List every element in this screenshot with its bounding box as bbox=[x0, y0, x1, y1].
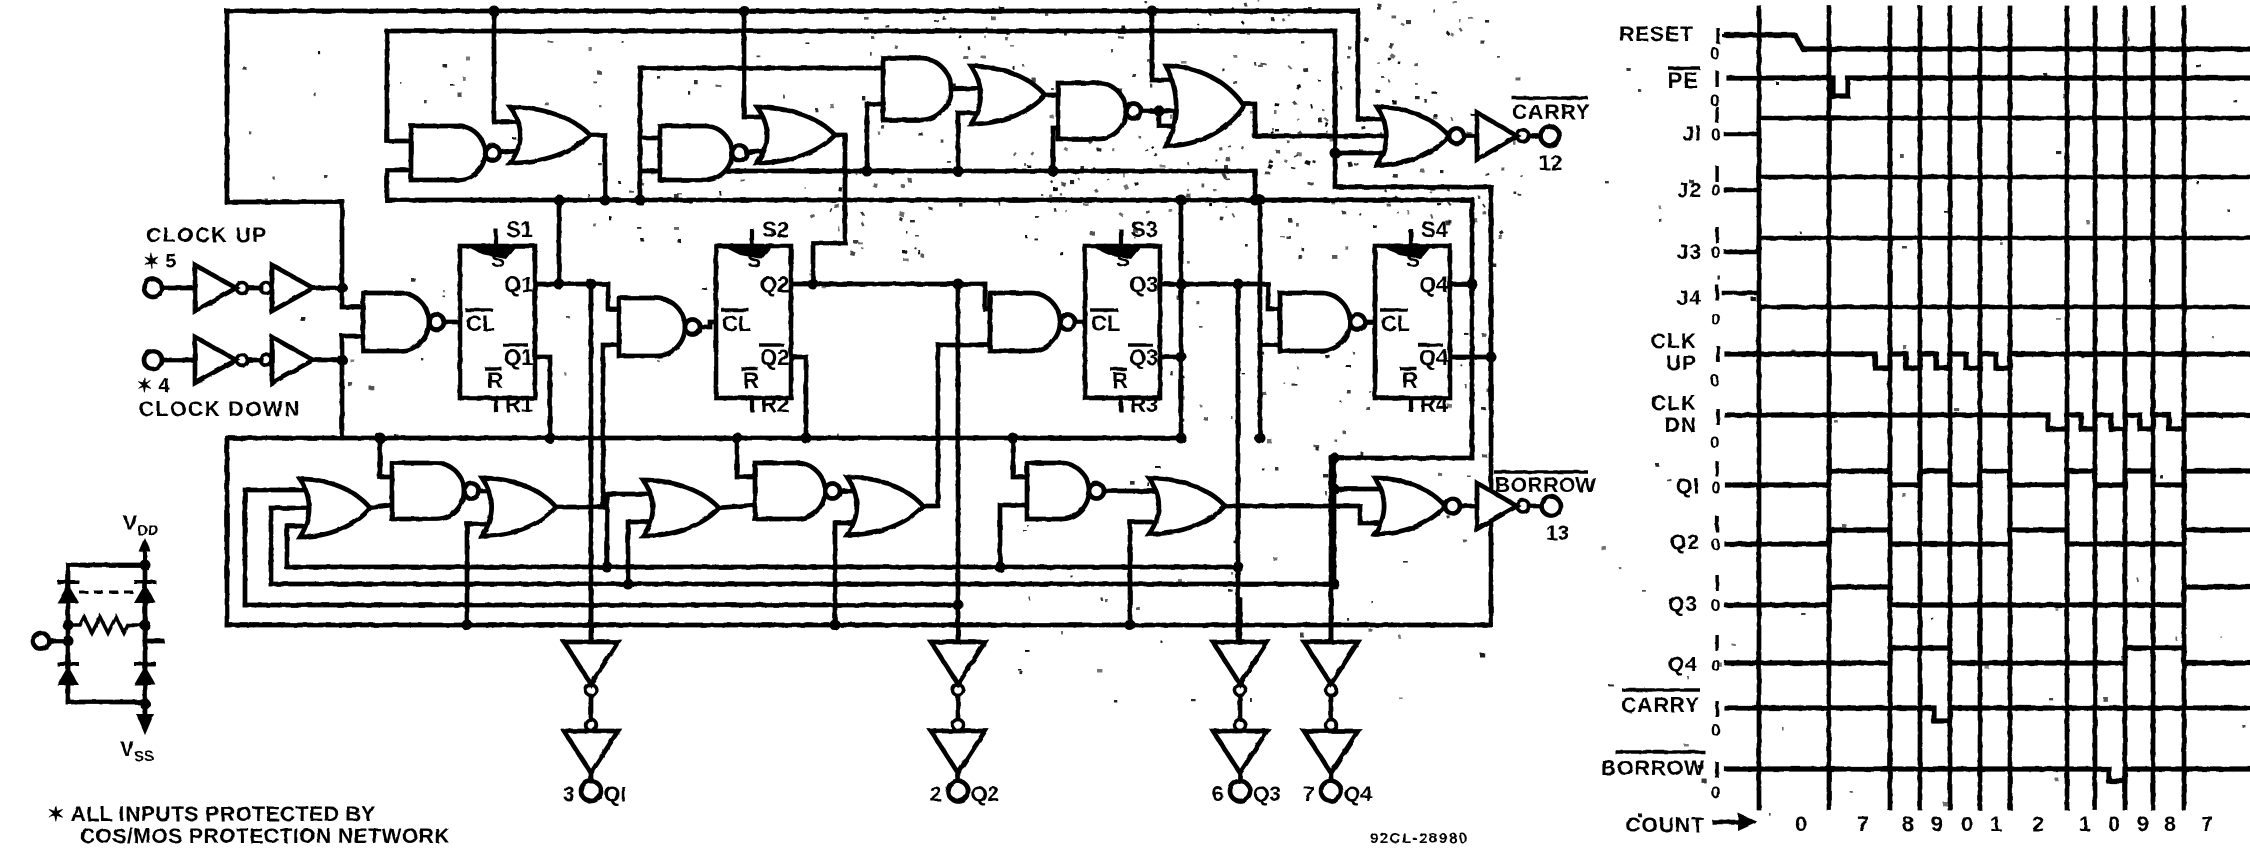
timing grid line 1 bbox=[1827, 8, 1832, 808]
wire trunk TB2 bbox=[271, 582, 1334, 587]
wire Q3 output bbox=[1160, 282, 1268, 287]
svg-text:Q4: Q4 bbox=[1419, 345, 1449, 370]
wire left frame vertical upper bbox=[225, 11, 230, 202]
wire between clock-up buffers bbox=[248, 286, 261, 291]
svg-text:CL: CL bbox=[466, 311, 495, 336]
svg-text:QI: QI bbox=[604, 783, 626, 806]
svg-text:0: 0 bbox=[1961, 812, 1973, 836]
junction Q4 node bbox=[1467, 279, 1478, 290]
node CLK UP waveform bbox=[1727, 354, 2250, 368]
svg-text:R: R bbox=[487, 368, 503, 393]
flip-flop S2/R2 box bbox=[716, 229, 791, 412]
diode D1 to VDD bbox=[57, 582, 79, 603]
wire stair to trunk TA bbox=[287, 526, 318, 567]
BORROW level-1 tick bbox=[1715, 762, 1718, 778]
wire top trunk T1 bbox=[227, 9, 1358, 14]
svg-text:0: 0 bbox=[1711, 535, 1720, 554]
junction Q3 stem on TA bbox=[1233, 562, 1244, 573]
wire frame branch to clock node bbox=[227, 200, 342, 205]
svg-text:S3: S3 bbox=[1131, 217, 1158, 242]
wire stair to trunk TC bbox=[245, 490, 318, 605]
wire G2 to G3 bbox=[493, 150, 530, 153]
junction Q4 feed / NOR riser bbox=[1329, 453, 1340, 464]
wire clock-up to node bbox=[313, 286, 342, 291]
timing grid line 0 bbox=[1757, 8, 1762, 808]
power VDD arrow bbox=[143, 546, 147, 565]
svg-text:0: 0 bbox=[1711, 125, 1720, 144]
bubble A4 input bbox=[261, 355, 272, 366]
junction TF/G8 bbox=[1048, 166, 1059, 177]
wire clock-up to NAND G1 input bbox=[342, 288, 363, 307]
svg-text:BORROW: BORROW bbox=[1601, 757, 1705, 780]
junction G5 output on Q2 line bbox=[808, 279, 819, 290]
diode D2 to VDD bbox=[134, 582, 156, 603]
Q3 level-1 tick bbox=[1715, 575, 1718, 591]
diode D3 to VSS bbox=[57, 664, 79, 685]
svg-text:SS: SS bbox=[134, 748, 154, 765]
wire trunk TB to NAND G2 lower input bbox=[387, 170, 411, 200]
junction TC end on Q2 stem bbox=[953, 600, 964, 611]
svg-text:J4: J4 bbox=[1677, 287, 1702, 310]
Q4 level-1 tick bbox=[1715, 635, 1718, 651]
J2 level-1 tick bbox=[1715, 166, 1718, 182]
wire Q1 to trunk TB bbox=[557, 200, 562, 284]
inverter G24 borrow output bbox=[1477, 483, 1517, 529]
wire G13 output to FF3 CL bbox=[1075, 320, 1085, 325]
OR gate G22 borrow bbox=[1149, 478, 1225, 534]
buffer A3 clock-down first bbox=[195, 337, 236, 383]
svg-text:J3: J3 bbox=[1677, 241, 1702, 264]
svg-text:R: R bbox=[743, 368, 759, 393]
timing grid line 8 bbox=[2093, 8, 2098, 808]
wire Q4 to terminal bbox=[1329, 773, 1334, 781]
bubble A2 input bbox=[261, 283, 272, 294]
overline PE bbox=[1668, 66, 1700, 69]
timing grid line 3 bbox=[1918, 8, 1923, 808]
wire TD to G21 upper input bbox=[1013, 438, 1027, 477]
timing grid line 10 bbox=[2151, 8, 2156, 808]
J4 level-1 tick bbox=[1715, 285, 1718, 301]
svg-text:PE: PE bbox=[1668, 68, 1699, 93]
wire TF to G7 lower input bbox=[958, 113, 988, 171]
wire G16 to G17 bbox=[474, 489, 502, 494]
wire feeder to G6 upper input bbox=[640, 66, 883, 71]
resistor R protection bbox=[68, 617, 145, 633]
svg-text:Q2: Q2 bbox=[971, 783, 999, 806]
CLK DN level-1 tick bbox=[1716, 409, 1719, 425]
svg-text:13: 13 bbox=[1546, 522, 1569, 545]
junction Q1/buffer stem bbox=[586, 279, 597, 290]
wire Q4 riser TB to borrow bbox=[1470, 200, 1475, 458]
wire Q1 buffer stem bbox=[589, 284, 594, 642]
Q1 level-1 tick bbox=[1715, 461, 1718, 477]
wire TF to G8 lower input bbox=[1053, 128, 1058, 171]
wire Q3 to NAND G14 upper input bbox=[1268, 284, 1280, 309]
junction G4 input on TB bbox=[635, 195, 646, 206]
wire G5 output down to Q2 node bbox=[813, 135, 845, 284]
wire riser Q4feed to TB2 bbox=[1332, 458, 1337, 584]
OR gate G20 borrow bbox=[847, 477, 923, 535]
inverter G11 carry output bbox=[1477, 113, 1517, 160]
CLK UP level-1 tick bbox=[1716, 346, 1719, 362]
inverter Q2 output second bbox=[931, 731, 985, 773]
svg-text:CL: CL bbox=[1091, 311, 1120, 336]
svg-text:8: 8 bbox=[1902, 812, 1914, 836]
NAND gate G2 bbox=[411, 126, 500, 180]
svg-text:0: 0 bbox=[1710, 371, 1719, 390]
wire protection output stub bbox=[145, 639, 162, 644]
overline BORROW timing bbox=[1615, 750, 1705, 753]
svg-text:CLK: CLK bbox=[1651, 330, 1697, 353]
svg-text:CARRY: CARRY bbox=[1512, 101, 1591, 124]
wire G18 to G19 bbox=[717, 505, 755, 508]
wire TE to G20 lower input bbox=[835, 523, 866, 625]
svg-text:7: 7 bbox=[1303, 783, 1315, 806]
wire G14 output to FF4 CL bbox=[1365, 320, 1375, 325]
svg-text:Q4: Q4 bbox=[1344, 783, 1372, 806]
svg-text:0: 0 bbox=[1711, 243, 1720, 262]
wire TB drop riser x1260 bbox=[1258, 200, 1263, 438]
junction VDD rail bbox=[140, 560, 151, 571]
OR gate G15 borrow bbox=[300, 479, 370, 537]
wire G12 output to FF2 CL bbox=[701, 322, 716, 327]
flip-flop S1/R1 box bbox=[460, 229, 535, 412]
wire G14 lower input bbox=[1260, 343, 1280, 348]
wire clock-up input bbox=[162, 286, 195, 291]
wire G10 to carry inverter bbox=[1464, 134, 1477, 139]
svg-text:8: 8 bbox=[2164, 812, 2176, 836]
Q2 level-1 tick bbox=[1715, 516, 1718, 532]
node Q1 waveform bbox=[1727, 471, 2250, 485]
wire protection left branch bbox=[66, 565, 71, 702]
node Q2 waveform bbox=[1727, 530, 2250, 544]
svg-text:0: 0 bbox=[1710, 44, 1719, 63]
svg-text:CLOCK DOWN: CLOCK DOWN bbox=[139, 398, 301, 421]
flip-flop S4/R4 box bbox=[1375, 229, 1450, 412]
wire G21 to G22 bbox=[1104, 489, 1168, 494]
inverter QI output first bbox=[564, 642, 618, 684]
svg-text:2: 2 bbox=[930, 783, 942, 806]
svg-text:S1: S1 bbox=[506, 217, 533, 242]
wire TD to G16 upper input bbox=[380, 438, 392, 477]
bubble Q2 second inverter input bbox=[953, 720, 964, 731]
bubble Q2 first inverter bbox=[953, 685, 964, 696]
junction Q1-bar on TD bbox=[545, 433, 556, 444]
output terminal Q3 bbox=[1230, 781, 1250, 801]
wire G22 output to NOR G23 lower input bbox=[1225, 506, 1394, 523]
bubble A3 output bbox=[237, 355, 248, 366]
svg-text:✶ ALL INPUTS PROTECTED BY: ✶ ALL INPUTS PROTECTED BY bbox=[47, 803, 376, 826]
svg-text:Q2: Q2 bbox=[1670, 531, 1700, 554]
wire T2 to NAND G2 upper input bbox=[387, 31, 411, 141]
NOR gate G23 borrow bbox=[1375, 478, 1460, 534]
NAND gate G13 clock FF3 bbox=[990, 293, 1075, 351]
wire G7 to G8 bbox=[1045, 93, 1058, 98]
junction clock-down node bbox=[337, 355, 348, 366]
junction resistor left bbox=[63, 620, 74, 631]
wire Q4 buffer stem bbox=[1329, 458, 1334, 645]
wire stair to trunk TB2 bbox=[271, 508, 318, 584]
NOR gate G10 carry bbox=[1377, 107, 1464, 165]
inverter QI output second bbox=[564, 731, 618, 773]
wire borrow OR output up to G12 lower input bbox=[556, 345, 619, 507]
wire T1 drop to G5 upper input bbox=[744, 9, 778, 117]
output terminal CARRY pin 12 bbox=[1541, 127, 1560, 146]
svg-text:6: 6 bbox=[1212, 783, 1224, 806]
NAND gate G16 borrow bbox=[392, 463, 479, 519]
wire Q2-bar down to trunk TD bbox=[791, 357, 806, 438]
wire Q2 to NAND G13 upper input bbox=[985, 284, 990, 309]
wire to CARRY terminal bbox=[1529, 134, 1540, 139]
buffer A1 clock-up first bbox=[195, 265, 236, 311]
junction resistor right bbox=[140, 620, 151, 631]
wire TA to G21 lower input bbox=[1000, 505, 1027, 567]
junction x1260 on TD bbox=[1255, 433, 1266, 444]
output terminal QI bbox=[581, 781, 601, 801]
wire Q2 buffer stem bbox=[956, 284, 961, 645]
wire trunk TC bbox=[245, 603, 958, 608]
wire G8 output to G9 bbox=[1134, 109, 1186, 114]
wire protection top rail bbox=[68, 563, 145, 568]
svg-text:✶ 4: ✶ 4 bbox=[136, 375, 170, 397]
wire TE to G17 lower input bbox=[467, 524, 500, 625]
wire to BORROW terminal bbox=[1529, 504, 1541, 509]
flip-flop S1 pin labels bbox=[465, 217, 533, 417]
wire Q4 feed to buffer column bbox=[1331, 456, 1472, 461]
inverter Q2 output first bbox=[931, 642, 985, 684]
junction TB bbox=[1176, 195, 1187, 206]
bubble A1 output bbox=[237, 283, 248, 294]
svg-text:V: V bbox=[120, 738, 134, 761]
svg-text:R2: R2 bbox=[761, 392, 789, 417]
node Jl waveform bbox=[1726, 118, 2250, 134]
svg-text:QI: QI bbox=[1676, 475, 1700, 498]
junction TF/G6 bbox=[862, 166, 873, 177]
wire TE to G22 lower input bbox=[1130, 522, 1168, 625]
svg-text:3: 3 bbox=[563, 783, 575, 806]
OR gate G3 bbox=[510, 107, 590, 163]
svg-text:2: 2 bbox=[2032, 812, 2044, 836]
wire T2 end down to G10 lower input bbox=[1335, 31, 1396, 153]
wire G15 to G16 bbox=[368, 505, 392, 508]
junction TD/G21 bbox=[1008, 433, 1019, 444]
wire Q4 between inverters bbox=[1329, 696, 1334, 719]
dashed link between diodes bbox=[79, 591, 134, 594]
svg-text:R4: R4 bbox=[1420, 392, 1449, 417]
overline BORROW bbox=[1494, 470, 1588, 473]
wire clock-down to node bbox=[313, 358, 342, 363]
svg-text:Q3: Q3 bbox=[1253, 783, 1281, 806]
wire G8 output to G9 lower input bbox=[1159, 111, 1186, 126]
wire input to network bbox=[49, 639, 68, 644]
svg-text:CLK: CLK bbox=[1651, 392, 1697, 415]
input terminal CLOCK DOWN pin 4 bbox=[144, 351, 162, 369]
svg-text:Q4: Q4 bbox=[1668, 653, 1698, 676]
timing grid line 5 bbox=[1978, 8, 1983, 808]
svg-text:DN: DN bbox=[1665, 414, 1697, 437]
svg-text:Q3: Q3 bbox=[1129, 345, 1158, 370]
wire trunk TE bbox=[227, 623, 1491, 628]
svg-text:DD: DD bbox=[137, 522, 159, 539]
svg-text:Q4: Q4 bbox=[1419, 272, 1449, 297]
J3 level-1 tick bbox=[1715, 227, 1718, 243]
junction input node bbox=[63, 636, 74, 647]
wire Q4-bar output bbox=[1450, 355, 1491, 360]
wire G23 to borrow inverter bbox=[1460, 504, 1477, 509]
bubble QI first inverter bbox=[586, 685, 597, 696]
junction TB/G14 bbox=[1255, 195, 1266, 206]
junction on TB bbox=[554, 195, 565, 206]
node Q4 waveform bbox=[1727, 648, 2250, 663]
bubble QI second inverter input bbox=[586, 720, 597, 731]
COUNT arrow bbox=[1712, 820, 1744, 825]
wire Q1 output bbox=[535, 282, 608, 287]
junction TA/G18 bbox=[602, 562, 613, 573]
svg-text:CL: CL bbox=[1381, 311, 1410, 336]
NAND gate G19 borrow bbox=[755, 463, 840, 519]
NAND gate G14 clock FF4 bbox=[1280, 293, 1365, 351]
svg-text:V: V bbox=[123, 512, 137, 535]
svg-text:UP: UP bbox=[1666, 352, 1697, 375]
wire Q2 between inverters bbox=[956, 696, 961, 719]
wire QI between inverters bbox=[589, 696, 594, 719]
wire TD to G19 upper input bbox=[737, 438, 755, 477]
svg-text:9: 9 bbox=[1931, 812, 1943, 836]
node RESET waveform bbox=[1727, 35, 2250, 49]
svg-text:12: 12 bbox=[1539, 152, 1562, 175]
wire borrow OR output up to G13 lower input bbox=[923, 345, 990, 506]
svg-text:R1: R1 bbox=[505, 392, 533, 417]
junction G10 lower input node bbox=[1330, 148, 1341, 159]
svg-text:1: 1 bbox=[1990, 812, 2002, 836]
AND gate G6 bbox=[883, 58, 951, 120]
svg-text:Q1: Q1 bbox=[504, 345, 533, 370]
wire protection right branch bbox=[143, 565, 148, 712]
svg-text:✶ 5: ✶ 5 bbox=[143, 251, 176, 273]
svg-text:S: S bbox=[1116, 249, 1130, 272]
junction Q3/buffer stem bbox=[1233, 279, 1244, 290]
timing grid line 11 bbox=[2182, 8, 2187, 808]
timing grid line 7 bbox=[2065, 8, 2070, 808]
wire QI to terminal bbox=[589, 773, 594, 781]
wire T1 drop to G3 upper input bbox=[494, 11, 532, 122]
node J3 waveform bbox=[1726, 238, 2250, 252]
junction G3 output on TB bbox=[600, 195, 611, 206]
bubble Q4 first inverter bbox=[1326, 685, 1337, 696]
node Q3 waveform bbox=[1727, 587, 2250, 605]
inverter Q3 output first bbox=[1213, 642, 1267, 684]
junction T1/G9 bbox=[1147, 6, 1158, 17]
wire trunk TB bbox=[387, 198, 1472, 203]
svg-text:RESET: RESET bbox=[1619, 23, 1694, 46]
wire QI buffer stem lower bbox=[589, 600, 594, 642]
buffer A4 clock-down second bbox=[272, 337, 313, 383]
svg-text:7: 7 bbox=[1857, 812, 1869, 836]
power VSS arrow bbox=[139, 712, 151, 730]
OR gate G5 bbox=[757, 107, 835, 163]
inverter Q4 output first bbox=[1304, 642, 1358, 684]
junction TD/G16 bbox=[375, 433, 386, 444]
bubble G11 output bbox=[1517, 130, 1529, 142]
node PE waveform bbox=[1729, 78, 2250, 96]
junction TF on TB bbox=[1250, 195, 1261, 206]
output terminal Q2 bbox=[948, 781, 968, 801]
Jl level-1 tick bbox=[1715, 107, 1718, 123]
junction riser on TB2 bbox=[1329, 579, 1340, 590]
node J4 waveform bbox=[1724, 293, 2250, 307]
wire Q3-bar to riser bbox=[1160, 355, 1181, 360]
OR gate G9 bbox=[1166, 66, 1244, 146]
wire Q2 output bbox=[791, 282, 985, 287]
junction TE/G17 bbox=[462, 620, 473, 631]
svg-text:0: 0 bbox=[1711, 478, 1720, 497]
junction TD bbox=[1176, 433, 1187, 444]
svg-text:7: 7 bbox=[2201, 812, 2213, 836]
svg-text:COS/MOS PROTECTION NETWORK: COS/MOS PROTECTION NETWORK bbox=[80, 825, 450, 848]
input terminal protection network bbox=[33, 633, 49, 649]
svg-text:Q3: Q3 bbox=[1668, 593, 1698, 616]
wire TF to G6 lower input bbox=[867, 104, 883, 171]
node CARRY waveform bbox=[1727, 708, 2250, 721]
wire G6 to G7 bbox=[951, 88, 990, 89]
timing grid line 6 bbox=[2008, 8, 2013, 808]
inverter Q3 output second bbox=[1213, 731, 1267, 773]
wire Q3 buffer stem bbox=[1236, 284, 1241, 642]
junction TB2/G18 bbox=[623, 579, 634, 590]
NAND gate G12 clock FF2 bbox=[619, 298, 700, 356]
wire trunk TA bbox=[287, 565, 1238, 570]
wire trunk T2 bbox=[387, 29, 1335, 34]
junction Q3/TB riser bbox=[1176, 279, 1187, 290]
svg-text:BORROW: BORROW bbox=[1495, 474, 1596, 497]
wire between clock-down buffers bbox=[248, 358, 261, 363]
svg-text:0: 0 bbox=[1710, 433, 1719, 452]
RESET level-1 tick bbox=[1716, 28, 1719, 44]
svg-text:92CL-28980: 92CL-28980 bbox=[1370, 830, 1468, 847]
svg-text:1: 1 bbox=[2079, 812, 2091, 836]
diode D4 to VSS bbox=[134, 664, 156, 685]
wire Q2 to terminal bbox=[956, 773, 961, 781]
svg-text:Q2: Q2 bbox=[760, 345, 789, 370]
wire Q4 buffer stem lower bbox=[1329, 600, 1334, 642]
junction Q2-bar on TD bbox=[801, 433, 812, 444]
node CLK DN waveform bbox=[1727, 415, 2250, 429]
wire riser to G23 upper input bbox=[1334, 487, 1394, 492]
NAND gate G8 bbox=[1058, 83, 1141, 139]
node J2 waveform bbox=[1726, 177, 2250, 190]
wire T1 end down to G10 upper input bbox=[1358, 11, 1396, 119]
timing grid line 2 bbox=[1888, 8, 1893, 808]
flip-flop S2 pin labels bbox=[721, 217, 789, 417]
timing grid line 9 bbox=[2123, 8, 2128, 808]
svg-text:0: 0 bbox=[1711, 783, 1720, 802]
junction TA/G21 bbox=[995, 562, 1006, 573]
PE level-1 tick bbox=[1715, 71, 1718, 87]
wire G1 output to FF1 CL bbox=[444, 320, 460, 325]
svg-text:0: 0 bbox=[1711, 310, 1720, 329]
svg-text:Jl: Jl bbox=[1682, 123, 1702, 146]
junction TE/G20 bbox=[830, 620, 841, 631]
svg-text:CLOCK UP: CLOCK UP bbox=[146, 224, 268, 247]
wire Q3 between inverters bbox=[1238, 696, 1243, 719]
overline CARRY timing bbox=[1622, 688, 1700, 691]
bubble Q3 second inverter input bbox=[1235, 720, 1246, 731]
inverter Q4 output second bbox=[1304, 731, 1358, 773]
wire Q3 to terminal bbox=[1238, 773, 1243, 781]
svg-text:R3: R3 bbox=[1130, 392, 1158, 417]
wire left frame vertical lower bbox=[225, 438, 230, 625]
junction Q3-bar riser bbox=[1176, 352, 1187, 363]
